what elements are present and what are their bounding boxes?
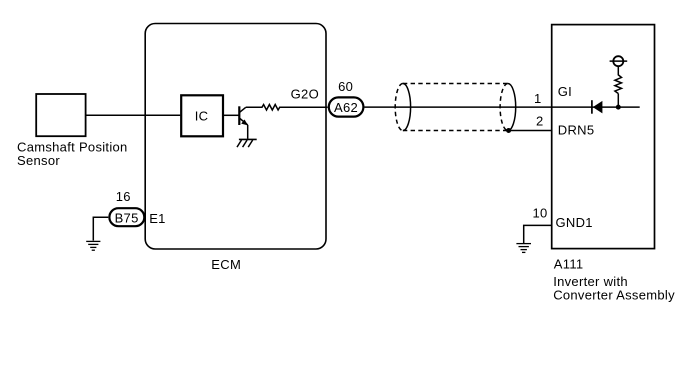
junction node diode/resistor [616,105,621,110]
wire A62 to inverter pin 1 (GI) [364,106,551,108]
IC U1 [181,95,223,136]
shielded cable [395,84,515,131]
svg-text:10: 10 [532,205,547,220]
svg-text:A62: A62 [334,100,358,115]
diode D1 [592,100,603,114]
resistor R1 [246,105,328,111]
svg-text:GND1: GND1 [556,215,593,230]
svg-text:2: 2 [536,113,544,128]
svg-text:Converter Assembly: Converter Assembly [553,287,675,302]
svg-text:16: 16 [116,189,131,204]
earth ground (E1) [86,241,100,250]
power terminal symbol [610,56,628,66]
svg-text:1: 1 [534,91,542,106]
svg-text:GI: GI [558,84,572,99]
ECM box [145,24,326,250]
wire pin1 inside box [552,106,640,108]
svg-text:IC: IC [195,109,209,124]
wire GND1 pin 10 [524,225,552,243]
earth ground (GND1) [516,244,531,253]
wire junction up to resistor R2 [617,94,619,108]
wire sensor to IC [87,114,181,116]
svg-text:ECM: ECM [211,257,241,272]
svg-text:B75: B75 [115,211,139,226]
svg-text:DRN5: DRN5 [558,122,595,137]
resistor R2 (vertical) [615,66,622,93]
svg-text:G2O: G2O [291,86,319,101]
inverter box A111 [552,25,655,249]
svg-text:E1: E1 [149,211,166,226]
junction shield to DRN5 wire [506,128,511,133]
svg-text:Sensor: Sensor [17,153,60,168]
wire B75 to ground [93,217,108,240]
svg-text:A111: A111 [554,256,584,271]
Camshaft Position Sensor box [36,94,85,136]
wire shield to pin 2 (DRN5) [509,130,552,132]
chassis ground (emitter) [237,139,257,147]
svg-text:60: 60 [338,79,353,94]
transistor Q1 [239,106,248,139]
wire IC to transistor base [224,114,239,116]
